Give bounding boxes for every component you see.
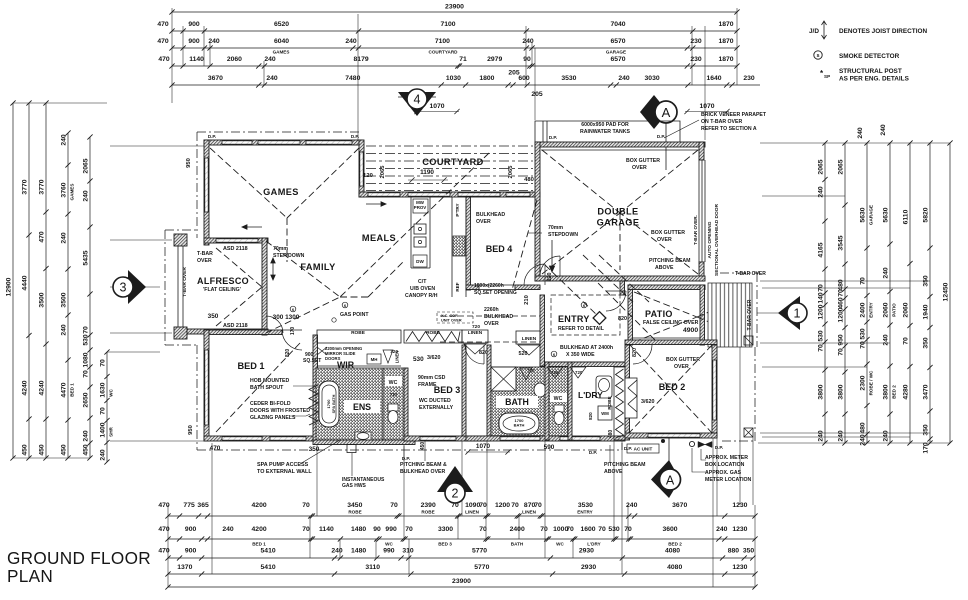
alfresco-family door arc (266, 316, 283, 333)
svg-text:3760: 3760 (61, 182, 68, 197)
svg-text:7040: 7040 (610, 21, 625, 28)
svg-text:7100: 7100 (440, 21, 455, 28)
svg-text:450: 450 (420, 442, 426, 451)
garage top wall (535, 142, 705, 147)
svg-text:BULKHEAD: BULKHEAD (484, 314, 513, 320)
svg-text:210: 210 (524, 295, 530, 305)
svg-text:3800: 3800 (883, 384, 890, 399)
svg-text:450: 450 (39, 444, 46, 456)
svg-text:950: 950 (188, 425, 194, 435)
svg-text:DENOTES JOIST DIRECTION: DENOTES JOIST DIRECTION (839, 28, 927, 35)
svg-text:2260h: 2260h (484, 307, 499, 313)
right dimension chain col 3 (866, 143, 868, 443)
svg-text:A: A (666, 474, 675, 488)
svg-text:1630: 1630 (100, 382, 107, 397)
svg-text:310: 310 (402, 548, 414, 555)
svg-text:AUTO OPENING: AUTO OPENING (707, 221, 713, 258)
games top wall windows (222, 141, 252, 144)
svg-text:PATIO: PATIO (892, 303, 897, 317)
svg-text:D.P.: D.P. (208, 134, 216, 139)
svg-text:1870: 1870 (718, 56, 733, 63)
robe band over wir (317, 330, 401, 343)
svg-text:70: 70 (83, 326, 90, 334)
linen box 1 (462, 330, 488, 343)
bed2 east wall (712, 345, 717, 437)
south wall bed1 (204, 436, 318, 441)
linen over bath band (545, 361, 625, 363)
svg-text:ENTRY: ENTRY (558, 314, 590, 324)
kitchen MW PROV box (413, 199, 428, 213)
svg-text:DW: DW (416, 259, 424, 264)
bed1 north wall (204, 330, 282, 335)
svg-text:1230: 1230 (732, 564, 747, 571)
svg-text:1070: 1070 (476, 443, 491, 450)
games west wall (204, 140, 209, 245)
svg-text:720: 720 (575, 370, 583, 375)
svg-text:3770: 3770 (39, 179, 46, 194)
misc S circles (290, 306, 296, 312)
svg-text:2060: 2060 (903, 302, 910, 317)
section marker 3 (left) (128, 270, 146, 304)
svg-text:2400: 2400 (860, 302, 867, 317)
svg-text:70: 70 (818, 344, 825, 352)
wc tiles (549, 367, 568, 436)
svg-text:70: 70 (860, 341, 867, 349)
bed3 door arc (465, 345, 484, 364)
svg-text:ALFRESCO: ALFRESCO (197, 276, 249, 286)
bottom dimension chain row 2 (168, 538, 755, 540)
svg-text:AC UNIT: AC UNIT (634, 447, 653, 452)
right extension lines (758, 143, 950, 443)
svg-text:2300: 2300 (860, 375, 867, 390)
shower (491, 367, 516, 391)
bed2 robe zig opening (625, 378, 637, 418)
entry dashed box (551, 295, 620, 335)
bottom dimension chain overall 23900 (168, 586, 755, 588)
svg-text:990: 990 (385, 526, 397, 533)
oven boxes (414, 224, 426, 234)
svg-text:BED 4: BED 4 (486, 244, 513, 254)
svg-text:GAS HWS: GAS HWS (342, 483, 367, 489)
garage parapet / tank pad outline (535, 121, 680, 143)
svg-text:240: 240 (618, 75, 630, 82)
bed3 east wall (462, 345, 466, 436)
svg-text:240: 240 (61, 134, 68, 146)
wall wc/ldry (568, 362, 572, 440)
svg-text:240: 240 (331, 548, 343, 555)
left dimension chain col 5 (89, 137, 91, 458)
svg-text:70: 70 (479, 502, 487, 509)
garage west wall (535, 142, 540, 281)
svg-text:230: 230 (743, 75, 755, 82)
svg-text:300 1300: 300 1300 (273, 314, 300, 321)
svg-text:BOX LOCATION: BOX LOCATION (705, 462, 745, 468)
ens floor label (344, 400, 380, 413)
svg-text:LINEN: LINEN (522, 336, 537, 342)
svg-text:ASD 2118: ASD 2118 (223, 323, 248, 329)
svg-text:990: 990 (383, 548, 395, 555)
svg-text:BED 3: BED 3 (438, 542, 452, 547)
svg-text:530: 530 (818, 330, 825, 342)
svg-text:90: 90 (373, 526, 381, 533)
svg-text:950: 950 (838, 334, 845, 346)
svg-text:ROBE / WC: ROBE / WC (869, 370, 874, 395)
bath south wall (466, 436, 625, 441)
svg-text:2930: 2930 (579, 548, 594, 555)
svg-text:RAINWATER TANKS: RAINWATER TANKS (580, 129, 630, 135)
svg-text:DOORS WITH FROSTED: DOORS WITH FROSTED (250, 408, 310, 414)
bottom extension lines (168, 345, 755, 587)
svg-text:240: 240 (818, 430, 825, 442)
svg-text:BATH: BATH (511, 542, 524, 547)
xc cor unit over box (437, 312, 473, 323)
svg-text:240: 240 (264, 56, 276, 63)
svg-text:3300: 3300 (438, 526, 453, 533)
top dimension chain row 5 (172, 84, 760, 86)
svg-text:PATIO: PATIO (645, 309, 673, 319)
bed4 west wall (466, 197, 471, 290)
svg-text:820: 820 (547, 273, 553, 282)
svg-text:70: 70 (390, 502, 398, 509)
bed2 door arc (633, 345, 652, 364)
svg-text:BOX GUTTER: BOX GUTTER (666, 357, 700, 363)
svg-text:2650: 2650 (83, 392, 90, 407)
svg-text:REFER TO DETAIL: REFER TO DETAIL (558, 326, 605, 332)
svg-text:GAMES: GAMES (263, 187, 299, 197)
svg-text:GROUND FLOOR: GROUND FLOOR (7, 548, 151, 568)
top extension lines (172, 8, 737, 140)
svg-text:T-BAR OVER: T-BAR OVER (182, 267, 188, 297)
svg-text:3530: 3530 (578, 502, 593, 509)
svg-text:1230: 1230 (732, 526, 747, 533)
svg-text:2979: 2979 (487, 56, 502, 63)
svg-text:480: 480 (608, 430, 614, 439)
svg-text:23900: 23900 (452, 578, 471, 585)
svg-text:4240: 4240 (39, 380, 46, 395)
svg-text:A: A (662, 105, 671, 120)
svg-text:240: 240 (83, 430, 90, 442)
svg-text:350: 350 (743, 548, 755, 555)
garage south wall (535, 276, 705, 281)
svg-text:3470: 3470 (923, 384, 930, 399)
svg-text:365: 365 (197, 502, 209, 509)
svg-text:720: 720 (551, 370, 559, 375)
svg-text:240: 240 (100, 449, 107, 461)
top dimension chain row 2 (172, 30, 737, 32)
svg-text:T-BAR OVER.: T-BAR OVER. (693, 215, 698, 245)
svg-text:1400: 1400 (100, 422, 107, 437)
svg-text:70mm: 70mm (273, 246, 288, 252)
bottom dimension chain row 4 (168, 573, 755, 575)
games top wall (204, 140, 362, 145)
wir fold arrows (317, 347, 327, 355)
svg-text:5770: 5770 (474, 564, 489, 571)
svg-text:775: 775 (183, 502, 195, 509)
svg-text:1200: 1200 (838, 307, 845, 322)
svg-text:70: 70 (534, 502, 542, 509)
svg-text:2060: 2060 (883, 302, 890, 317)
svg-text:WC: WC (109, 388, 114, 396)
svg-text:70: 70 (405, 526, 413, 533)
left dimension chain col 3 (45, 103, 47, 458)
svg-text:70: 70 (540, 526, 548, 533)
svg-text:UNIT OVER: UNIT OVER (441, 319, 462, 323)
svg-text:CANOPY R/H: CANOPY R/H (405, 293, 438, 299)
garage east wall with sectional door (699, 142, 704, 160)
ens south wall (313, 440, 415, 445)
svg-text:900: 900 (185, 526, 197, 533)
svg-text:6040: 6040 (274, 38, 289, 45)
svg-text:2: 2 (452, 487, 459, 501)
svg-text:350: 350 (923, 337, 930, 349)
svg-text:1940: 1940 (923, 304, 930, 319)
svg-text:1200: 1200 (495, 502, 510, 509)
svg-text:350: 350 (309, 446, 320, 453)
svg-text:240: 240 (883, 267, 890, 279)
svg-text:3110: 3110 (365, 564, 380, 571)
svg-text:720: 720 (527, 368, 535, 373)
svg-text:1480: 1480 (351, 526, 366, 533)
svg-text:70: 70 (100, 407, 107, 415)
svg-text:530: 530 (860, 328, 867, 340)
svg-text:PROV: PROV (414, 205, 427, 210)
svg-text:600: 600 (518, 75, 530, 82)
svg-text:2065: 2065 (83, 158, 90, 173)
svg-text:7100: 7100 (435, 38, 450, 45)
svg-text:3500: 3500 (39, 292, 46, 307)
patio north wall (628, 285, 705, 290)
svg-text:BOX GUTTER: BOX GUTTER (651, 230, 685, 236)
bath tub (499, 413, 539, 434)
svg-text:140: 140 (818, 292, 825, 304)
svg-text:900: 900 (188, 38, 200, 45)
svg-text:ROBE: ROBE (426, 330, 441, 336)
svg-text:3600: 3600 (662, 526, 677, 533)
ens wc pan (355, 432, 371, 440)
svg-text:BATH: BATH (505, 397, 529, 407)
entry south wall (540, 362, 625, 367)
svg-text:CEDER BI-FOLD: CEDER BI-FOLD (250, 401, 291, 407)
svg-text:DOUBLE: DOUBLE (597, 207, 638, 217)
svg-text:s: s (816, 53, 819, 59)
right dimension chain col 1 (824, 143, 826, 443)
svg-text:ABOVE: ABOVE (655, 265, 674, 271)
section marker 2 (bottom) (437, 466, 473, 492)
svg-text:530: 530 (83, 334, 90, 346)
svg-text:23900: 23900 (445, 4, 464, 11)
robe band bed3 (404, 330, 462, 343)
family west wall (262, 238, 267, 335)
section marker 1 (right) (757, 312, 786, 314)
svg-text:4200: 4200 (252, 526, 267, 533)
svg-text:D.P.: D.P. (351, 134, 359, 139)
svg-text:ON T-BAR OVER: ON T-BAR OVER (701, 119, 742, 125)
garage inner top line (541, 149, 699, 151)
top dimension chain row 3 (172, 47, 737, 49)
bottom dimension chain row 1 (168, 515, 755, 517)
svg-text:2065: 2065 (838, 159, 845, 174)
svg-text:1140: 1140 (189, 56, 204, 63)
alfresco south wall ASD 2118 (187, 329, 268, 334)
svg-text:70: 70 (302, 502, 310, 509)
svg-text:5410: 5410 (261, 564, 276, 571)
bed2 north wall (625, 340, 717, 345)
svg-text:480: 480 (860, 422, 867, 434)
arrows (242, 225, 262, 229)
svg-text:820: 820 (285, 349, 291, 358)
svg-text:4165: 4165 (818, 242, 825, 257)
svg-text:70: 70 (566, 526, 574, 533)
svg-text:FRAME: FRAME (418, 382, 437, 388)
bed2 west wall (625, 345, 630, 440)
svg-text:OVER: OVER (197, 258, 212, 264)
svg-text:6520: 6520 (274, 21, 289, 28)
svg-text:WC: WC (385, 542, 393, 547)
svg-text:BRICK VENEER PARAPET: BRICK VENEER PARAPET (701, 112, 767, 118)
svg-text:STEP/DOWN: STEP/DOWN (273, 253, 305, 259)
svg-text:3530: 3530 (561, 75, 576, 82)
svg-text:2065: 2065 (508, 165, 514, 179)
svg-text:71: 71 (459, 56, 467, 63)
right dimension chain col 2 (844, 143, 846, 443)
svg-text:170: 170 (923, 442, 930, 454)
svg-text:X 350 WIDE: X 350 WIDE (566, 352, 595, 358)
svg-text:ENTRY: ENTRY (577, 510, 592, 515)
svg-text:GARAGE: GARAGE (869, 205, 874, 225)
svg-text:4280: 4280 (903, 384, 910, 399)
svg-text:BED 1: BED 1 (237, 361, 264, 371)
legend smoke detector (814, 51, 822, 59)
svg-text:FAMILY: FAMILY (300, 262, 335, 272)
svg-text:4200: 4200 (252, 502, 267, 509)
svg-text:240: 240 (860, 434, 867, 446)
svg-text:3770: 3770 (22, 179, 29, 194)
svg-text:5820: 5820 (923, 207, 930, 222)
bed2 roof dashes (598, 283, 712, 433)
svg-text:D.P.: D.P. (624, 446, 632, 451)
svg-text:2060: 2060 (227, 56, 242, 63)
svg-text:1870: 1870 (718, 38, 733, 45)
svg-text:1200: 1200 (818, 304, 825, 319)
bath basin (534, 383, 546, 397)
svg-text:3/620: 3/620 (427, 355, 441, 361)
svg-text:1090: 1090 (465, 502, 480, 509)
bed1 west wall (204, 330, 209, 441)
svg-text:1030: 1030 (446, 75, 461, 82)
svg-text:WC: WC (389, 380, 398, 386)
svg-text:GAMES: GAMES (70, 184, 75, 201)
pantry / fridge column (452, 197, 466, 297)
bed1 door arc (282, 330, 302, 350)
svg-text:SQ.SET OPENING: SQ.SET OPENING (474, 290, 517, 296)
front wall below garage (620, 281, 625, 295)
svg-text:MH: MH (371, 357, 378, 362)
svg-text:350: 350 (208, 313, 219, 320)
svg-text:SMOKE DETECTOR: SMOKE DETECTOR (839, 53, 900, 60)
svg-text:5410: 5410 (261, 548, 276, 555)
svg-text:450: 450 (22, 444, 29, 456)
spa bath (319, 381, 339, 427)
svg-text:METER LOCATION: METER LOCATION (705, 477, 752, 483)
svg-text:OVER: OVER (476, 219, 491, 225)
svg-text:SP: SP (824, 74, 830, 79)
svg-text:LINEN: LINEN (522, 510, 536, 515)
svg-text:D.P.: D.P. (715, 445, 723, 450)
svg-text:GLAZING PANELS: GLAZING PANELS (250, 415, 296, 421)
svg-text:2065: 2065 (380, 165, 386, 179)
svg-text:L'DRY: L'DRY (578, 390, 603, 400)
svg-text:1480: 1480 (351, 548, 366, 555)
right dimension chain col 4 (889, 143, 891, 443)
svg-text:950: 950 (186, 158, 192, 168)
svg-text:1800: 1800 (479, 75, 494, 82)
svg-text:4080: 4080 (667, 564, 682, 571)
svg-text:3800: 3800 (838, 384, 845, 399)
top dimension chain overall 23900 (172, 11, 737, 13)
bed4 south wall with sq set opening (466, 285, 479, 290)
wir south (mirror doors) (317, 365, 401, 367)
svg-text:PITCHING BEAM &: PITCHING BEAM & (400, 462, 447, 468)
svg-text:OVER: OVER (484, 321, 499, 327)
svg-text:5435: 5435 (83, 250, 90, 265)
svg-text:BATH SPOUT: BATH SPOUT (250, 385, 284, 391)
svg-text:470: 470 (210, 445, 221, 452)
svg-text:1190: 1190 (420, 169, 434, 176)
svg-text:3450: 3450 (347, 502, 362, 509)
left dimension chain col 2 (28, 103, 30, 458)
svg-text:6570: 6570 (610, 56, 625, 63)
svg-text:ROBE: ROBE (421, 510, 434, 515)
svg-text:BULKHEAD: BULKHEAD (476, 212, 505, 218)
alfresco pier SW (174, 327, 187, 339)
svg-text:T-BAR: T-BAR (197, 251, 213, 257)
svg-text:820: 820 (618, 316, 627, 322)
alfresco roof dashes (216, 248, 262, 326)
svg-text:170: 170 (290, 327, 296, 336)
svg-text:L'DRY: L'DRY (587, 542, 600, 547)
svg-text:1370: 1370 (177, 564, 192, 571)
bath west wall (487, 345, 491, 436)
svg-text:4: 4 (414, 93, 421, 107)
svg-text:D.P.: D.P. (549, 135, 557, 140)
svg-text:AS PER ENG. DETAILS: AS PER ENG. DETAILS (839, 76, 910, 83)
svg-text:ABOVE: ABOVE (604, 469, 623, 475)
bath room tiles (491, 367, 548, 436)
svg-text:3670: 3670 (672, 502, 687, 509)
games east wall (to courtyard) (359, 140, 364, 197)
svg-text:3545: 3545 (838, 235, 845, 250)
svg-text:ROBE: ROBE (351, 330, 366, 336)
svg-text:BULKHEAD OVER: BULKHEAD OVER (400, 469, 446, 475)
svg-text:900: 900 (185, 548, 197, 555)
svg-text:BED 1: BED 1 (70, 383, 75, 397)
svg-text:1080: 1080 (83, 352, 90, 367)
gas hws box (347, 445, 356, 453)
svg-text:SHR: SHR (109, 426, 114, 436)
svg-text:240: 240 (61, 232, 68, 244)
hall south wall (466, 436, 490, 441)
svg-text:4240: 4240 (22, 380, 29, 395)
svg-text:880: 880 (728, 548, 740, 555)
svg-text:2065: 2065 (818, 159, 825, 174)
svg-text:SPA BATH: SPA BATH (332, 394, 336, 413)
svg-text:70: 70 (903, 337, 910, 345)
svg-text:1070: 1070 (699, 103, 714, 110)
svg-text:4080: 4080 (665, 548, 680, 555)
bed1 roof dash (216, 343, 300, 432)
wall hall/entry (540, 295, 545, 366)
wall bath/wc (545, 362, 549, 440)
